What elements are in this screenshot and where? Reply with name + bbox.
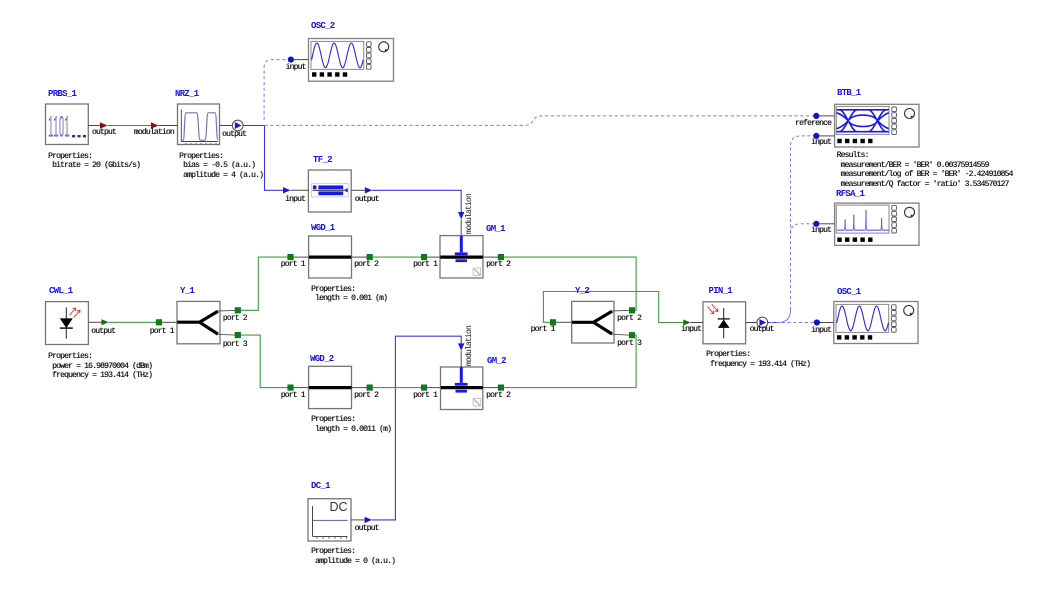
wire NRZ probe -> BTB_1.reference (dashed blue): [265, 113, 835, 126]
label OSC_1: [837, 288, 861, 297]
pin label GM_1 port 2: [486, 260, 510, 269]
label PIN_1: [709, 287, 733, 296]
PRBS_1 icon "1101...": [48, 110, 70, 144]
pin label Y_1 port 2: [223, 314, 247, 323]
wire CWL_1.output -> Y_1.port1 (optical, green): [88, 319, 177, 325]
pin label WGD_1 port 2: [354, 260, 378, 269]
pin label WGD_2 port 2: [354, 391, 378, 400]
wire BTB_1.input stub: [813, 133, 834, 139]
wire WGD_2.port2 -> GM_2.port1 (green): [352, 385, 441, 391]
pin label BTB input: [811, 138, 831, 147]
meter BTB_1 (eye diagram analyzer): [835, 104, 919, 147]
wire PIN probe -> monitors riser (dashed blue up): [768, 136, 813, 323]
wire NRZ probe -> OSC_2.input (dashed blue): [264, 57, 308, 121]
wire Y_2.port1 -> PIN_1.input (green, loop over top): [543, 292, 703, 326]
properties WGD_1: [311, 285, 387, 304]
block PIN_1: [703, 302, 746, 344]
wire PIN_1.output stub + probe: [746, 317, 768, 328]
properties CWL_1: [48, 352, 152, 381]
label GM_2: [487, 357, 506, 366]
pin label CWL output: [91, 327, 115, 336]
wire NRZ_1.output stub + probe: [220, 120, 265, 131]
wire DC_1.output -> GM_2.modulation (solid blue): [351, 336, 464, 523]
properties DC_1: [311, 547, 395, 566]
pin label GM_2 port 1: [413, 391, 437, 400]
pin label GM_1 port 1: [413, 260, 437, 269]
pin label Y_2 port 3: [617, 339, 641, 348]
block WGD_1: [309, 236, 352, 278]
properties WGD_2: [311, 415, 391, 434]
pin label GM_1 modulation (rotated): [465, 193, 474, 233]
block Y_1: [177, 301, 236, 343]
wire OSC_1.input stub: [814, 319, 834, 325]
label Y_2: [575, 287, 589, 296]
wire Y_1.port3 -> WGD_2.port1 (green, down): [235, 332, 309, 390]
wire RFSA_1.input stub: [813, 221, 834, 227]
pin label OSC_2 input: [286, 63, 306, 72]
label BTB_1: [837, 89, 861, 98]
label CWL_1: [49, 287, 73, 296]
label OSC_2: [311, 22, 335, 31]
block TF_2: [308, 170, 351, 212]
pin label TF_2 input: [285, 195, 305, 204]
results BTB_1: [837, 151, 1013, 190]
pin label DC output: [355, 524, 379, 533]
pin label BTB reference: [795, 119, 831, 128]
pin label WGD_1 port 1: [281, 260, 305, 269]
wire TF_2.output -> GM_1.modulation (solid blue): [351, 187, 464, 236]
block Y_2: [572, 301, 630, 343]
wire WGD_1.port2 -> GM_1.port1 (green): [352, 254, 441, 260]
meter OSC_2 (oscilloscope): [309, 39, 394, 82]
wire PIN probe -> OSC_1.input (dashed blue): [770, 322, 814, 324]
pin label Y_1 port 1: [150, 327, 174, 336]
label WGD_2: [310, 355, 334, 364]
properties PIN_1: [706, 350, 810, 369]
block WGD_2: [309, 366, 352, 408]
wire GM_1.port2 -> Y_2.port2 (green): [483, 254, 636, 313]
label DC_1: [311, 482, 330, 491]
wire NRZ probe -> TF_2.input (solid blue, down then right): [265, 126, 309, 194]
pin label GM_2 modulation (rotated): [465, 325, 474, 365]
label GM_1: [486, 225, 505, 234]
properties NRZ_1: [179, 152, 263, 181]
DC_1 icon text: [330, 500, 348, 514]
label NRZ_1: [175, 90, 199, 99]
pin label Y_2 port 1: [531, 325, 555, 334]
pin label TF_2 output: [355, 195, 379, 204]
pin label OSC_1 input: [811, 326, 831, 335]
label WGD_1: [311, 224, 335, 233]
block GM_1: [440, 236, 483, 278]
pin label PRBS output: [92, 128, 116, 137]
pin label NRZ modulation: [134, 128, 174, 137]
block PRBS_1: [46, 104, 89, 145]
pin label PIN output: [750, 325, 774, 334]
meter OSC_1 (oscilloscope): [834, 302, 918, 344]
pin label Y_2 port 2: [617, 314, 641, 323]
wire GM_2.port2 -> Y_2.port3 (green): [483, 332, 636, 390]
wire Y_1.port2 -> WGD_1.port1 (green, up): [235, 254, 309, 313]
label RFSA_1: [836, 190, 864, 199]
block NRZ_1: [178, 104, 220, 145]
wire PRBS_1.output -> NRZ_1.modulation (electrical, dark red): [88, 122, 177, 128]
block CWL_1: [46, 302, 89, 345]
pin label Y_1 port 3: [223, 340, 247, 349]
label TF_2: [313, 156, 332, 165]
meter RFSA_1 (RF spectrum analyzer): [835, 203, 919, 245]
pin label NRZ output: [222, 130, 246, 139]
properties PRBS_1: [48, 152, 140, 171]
label Y_1: [180, 287, 194, 296]
pin label RFSA input: [811, 226, 831, 235]
block GM_2: [441, 367, 483, 410]
label PRBS_1: [48, 90, 76, 99]
pin label WGD_2 port 1: [281, 391, 305, 400]
block DC_1: [308, 499, 351, 541]
pin label PIN input: [681, 325, 701, 334]
pin label GM_2 port 2: [486, 391, 510, 400]
